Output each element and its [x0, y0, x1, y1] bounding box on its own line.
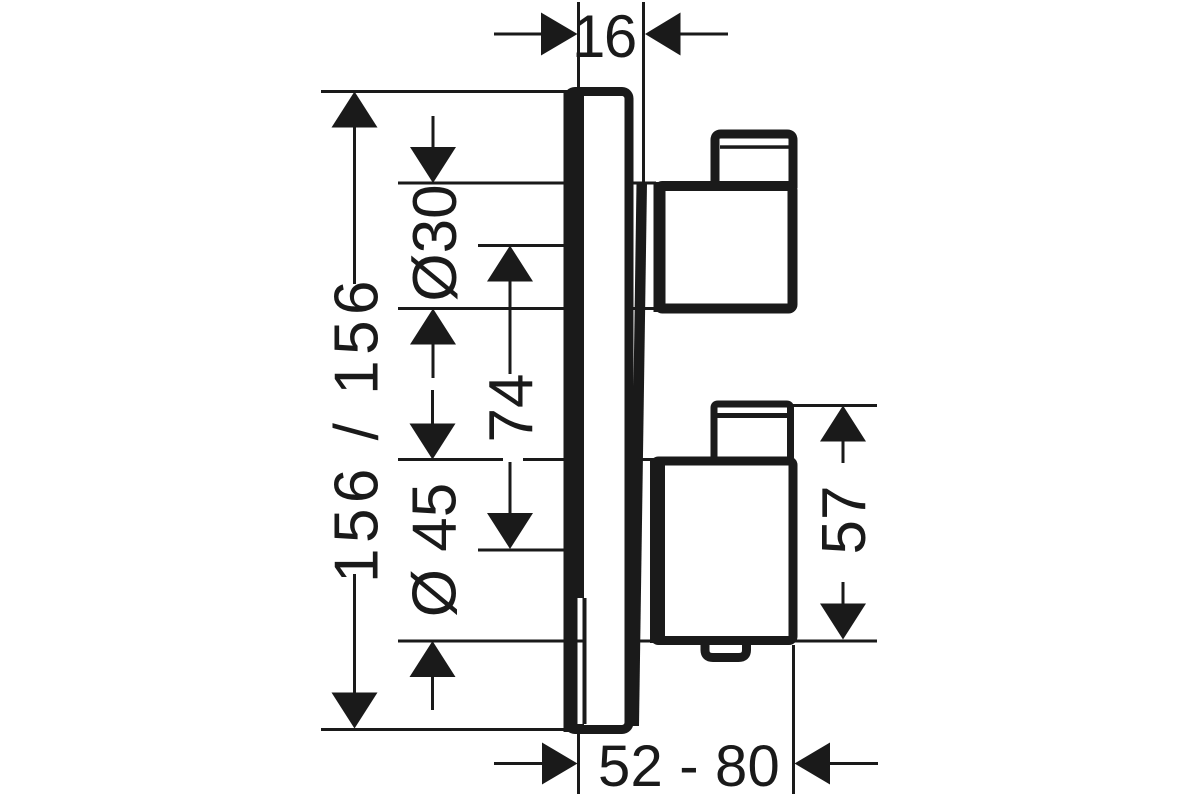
svg-text:16: 16: [572, 3, 636, 70]
extension line 16 left: [577, 2, 580, 90]
dimension 57 line and arrows: [820, 406, 866, 640]
svg-text:Ø30: Ø30: [401, 184, 470, 301]
extension line bottom of upper knob: [398, 307, 584, 310]
upper handle body (thermostat knob, side view): [654, 182, 793, 312]
lower handle body (volume knob, side view): [650, 458, 793, 643]
dimension 16 arrows: [494, 13, 728, 56]
svg-text:156 / 156: 156 / 156: [323, 275, 392, 583]
extension line bottom of lower knob: [398, 640, 584, 643]
svg-text:Ø 45: Ø 45: [401, 483, 470, 617]
dimension O30 line and arrows: [410, 116, 456, 378]
extension line centre of upper knob: [478, 244, 570, 247]
extension line top of lower knob: [398, 458, 503, 461]
wall plate (escutcheon, side view): [564, 90, 648, 732]
svg-text:57: 57: [810, 486, 879, 555]
dimension 52-80 arrows: [494, 743, 878, 785]
upper handle lever: [715, 134, 793, 188]
extension line 52-80 left: [577, 734, 580, 794]
extension line 16 right: [642, 2, 645, 185]
extension line top of plate: [321, 90, 571, 93]
extension line bottom of plate: [321, 728, 571, 731]
extension line centre of lower knob: [478, 549, 578, 552]
extension line top of lower lever: [791, 404, 877, 407]
lower handle lever: [714, 404, 791, 460]
dimension 156/156 line and arrows: [332, 92, 378, 729]
dimension O45 line and arrows: [410, 390, 456, 710]
extension line top of upper knob: [398, 182, 584, 185]
svg-text:52 - 80: 52 - 80: [598, 734, 780, 799]
dimension 74 line and arrows: [487, 246, 533, 550]
lower handle bottom tab: [705, 640, 747, 658]
svg-text:74: 74: [477, 374, 546, 443]
extension line 52-80 right: [792, 645, 795, 794]
